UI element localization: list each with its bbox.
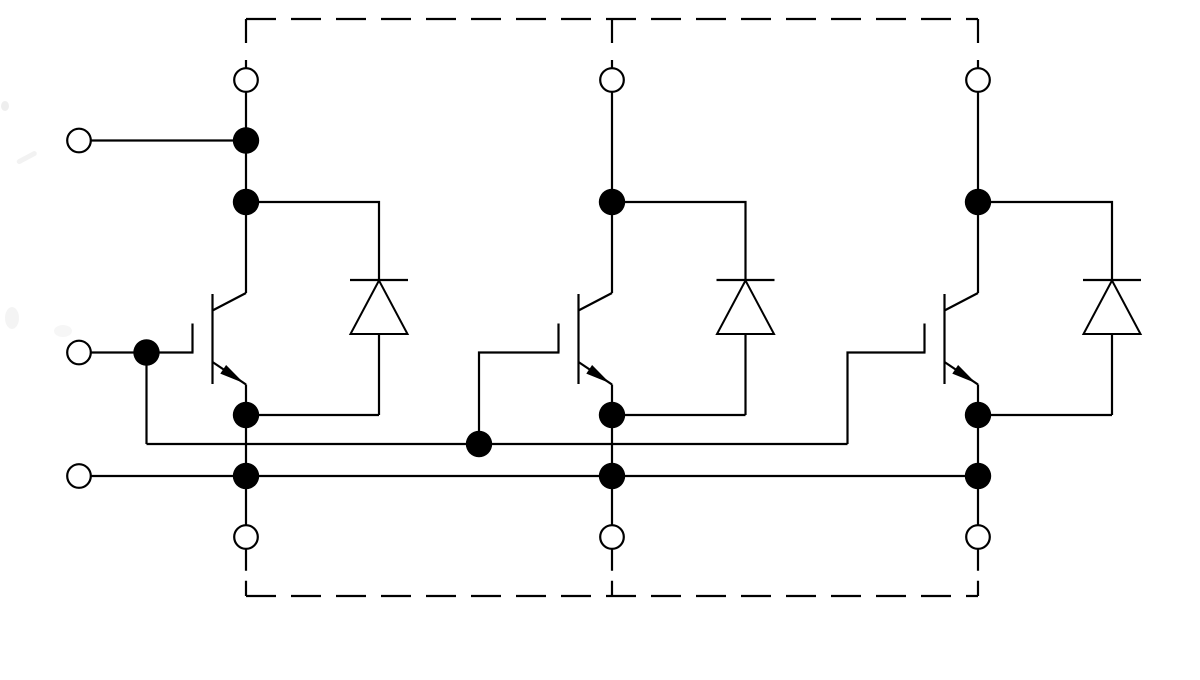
wire: upper-left terminal to collector node of leg 1 bbox=[91, 139, 246, 141]
IGBT Q3 gate bar bbox=[923, 324, 925, 353]
wire: collector vertical of leg 3 bbox=[977, 92, 979, 293]
IGBT Q2 emitter diagonal bbox=[579, 362, 613, 385]
leg 2: dashed stub from top edge to collector terminal C2 bbox=[611, 19, 613, 68]
node: collector junction dot of leg 3 bbox=[965, 189, 991, 215]
node: collector tap junction dot (leg 1) bbox=[233, 127, 259, 153]
diode D2 triangle (anode) bbox=[717, 281, 774, 335]
IGBT Q1 emitter diagonal bbox=[213, 362, 247, 385]
wire: diode D2 anode to emitter node of leg 2 bbox=[612, 414, 746, 416]
IGBT Q2 collector diagonal bbox=[579, 293, 613, 311]
node: emitter-bus junction dot of leg 1 bbox=[233, 463, 259, 489]
IGBT Q3 collector diagonal bbox=[945, 293, 979, 311]
node: emitter-bus junction dot of leg 2 bbox=[599, 463, 625, 489]
IGBT Q3 emitter diagonal bbox=[945, 362, 979, 385]
wire: collector to diode D2 cathode bbox=[612, 202, 746, 280]
node: emitter junction dot of leg 1 bbox=[233, 402, 259, 428]
wire: gate bus (horizontal) bbox=[147, 443, 848, 445]
module outline (dashed) top edge bbox=[246, 18, 978, 20]
terminal E common (open circle, lower left) bbox=[67, 464, 91, 488]
wire: gate of Q2 to gate bus bbox=[479, 353, 560, 445]
node: gate junction dot bbox=[133, 339, 159, 365]
leg 1: dashed stub from emitter terminal E1 to bottom edge bbox=[245, 549, 247, 596]
node: emitter junction dot of leg 3 bbox=[965, 402, 991, 428]
wire: emitter vertical of leg 3 down to bottom terminal bbox=[977, 385, 979, 526]
wire: gate of Q3 to gate bus bbox=[848, 353, 926, 445]
terminal E1 (emitter, open circle) bbox=[234, 525, 258, 549]
leg 2: dashed stub from emitter terminal E2 to bottom edge bbox=[611, 549, 613, 596]
wire: emitter vertical of leg 1 down to bottom terminal bbox=[245, 385, 247, 526]
terminal C1 (collector, open circle) bbox=[234, 68, 258, 92]
module outline (dashed) bottom edge bbox=[246, 595, 978, 597]
node: collector junction dot of leg 1 bbox=[233, 189, 259, 215]
leg 1: dashed stub from top edge to collector terminal C1 bbox=[245, 19, 247, 68]
wire: diode D2 anode down bbox=[744, 334, 746, 415]
IGBT Q2 body bar bbox=[577, 294, 579, 384]
wire: collector to diode D1 cathode bbox=[246, 202, 379, 280]
wire: emitter bus (horizontal) bbox=[91, 475, 978, 477]
IGBT Q1 collector diagonal bbox=[213, 293, 247, 311]
terminal E2 (emitter, open circle) bbox=[600, 525, 624, 549]
diode D2 cathode bar bbox=[717, 279, 775, 281]
wire: diode D1 anode to emitter node of leg 1 bbox=[246, 414, 379, 416]
wire: collector vertical of leg 2 bbox=[611, 92, 613, 293]
wire: collector to diode D3 cathode bbox=[978, 202, 1112, 280]
wire: gate node down to gate bus bbox=[145, 353, 147, 445]
node: collector junction dot of leg 2 bbox=[599, 189, 625, 215]
wire: diode D1 anode down bbox=[378, 334, 380, 415]
IGBT Q2 gate bar bbox=[557, 324, 559, 353]
terminal C1 side tap (open circle, upper left) bbox=[67, 129, 91, 153]
wire: diode D3 anode down bbox=[1111, 334, 1113, 415]
IGBT Q1 gate bar bbox=[191, 324, 193, 353]
IGBT Q3 body bar bbox=[943, 294, 945, 384]
terminal G (gate, open circle, middle left) bbox=[67, 341, 91, 365]
wire: diode D3 anode to emitter node of leg 3 bbox=[978, 414, 1112, 416]
node: emitter junction dot of leg 2 bbox=[599, 402, 625, 428]
terminal C2 (collector, open circle) bbox=[600, 68, 624, 92]
leg 3: dashed stub from top edge to collector terminal C3 bbox=[977, 19, 979, 68]
IGBT Q2 emitter arrowhead bbox=[586, 365, 610, 383]
IGBT Q1 body bar bbox=[211, 294, 213, 384]
wire: gate terminal to gate of Q1 bbox=[91, 351, 194, 353]
terminal E3 (emitter, open circle) bbox=[966, 525, 990, 549]
IGBT Q3 emitter arrowhead bbox=[952, 365, 976, 383]
leg 3: dashed stub from emitter terminal E3 to bottom edge bbox=[977, 549, 979, 596]
wire: collector vertical of leg 1 bbox=[245, 92, 247, 293]
diode D3 triangle (anode) bbox=[1084, 281, 1141, 335]
diode D1 cathode bar bbox=[350, 279, 408, 281]
wire: emitter vertical of leg 2 down to bottom terminal bbox=[611, 385, 613, 526]
diode D1 triangle (anode) bbox=[351, 281, 408, 335]
terminal C3 (collector, open circle) bbox=[966, 68, 990, 92]
diode D3 cathode bar bbox=[1083, 279, 1141, 281]
node: emitter-bus junction dot of leg 3 bbox=[965, 463, 991, 489]
IGBT Q1 emitter arrowhead bbox=[220, 365, 244, 383]
node: gate bus junction dot (Q2) bbox=[466, 431, 492, 457]
